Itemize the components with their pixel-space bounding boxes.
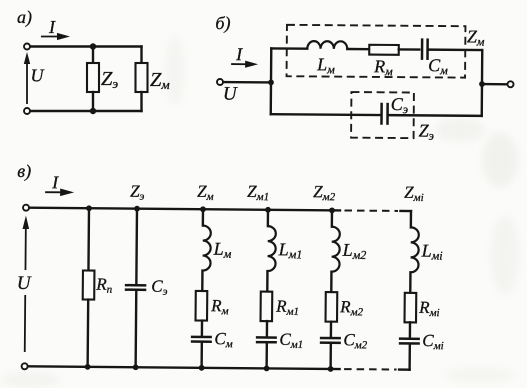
svg-text:Cм1: Cм1	[279, 330, 303, 351]
node dots top rail (part v)	[86, 205, 335, 213]
inductor L_мi (part v)	[410, 227, 418, 272]
svg-text:U: U	[31, 66, 45, 86]
svg-text:Cм: Cм	[428, 55, 448, 77]
resistor R_м (part b)	[369, 45, 399, 55]
resistor R_мi (part v)	[405, 293, 417, 323]
branch Z_м1 : wire top (part v)	[267, 210, 270, 226]
svg-text:в): в)	[17, 161, 31, 182]
node junction bottom (part a)	[90, 108, 96, 114]
wire input (part b)	[223, 81, 270, 84]
capacitor C_э branch (part v)	[124, 209, 147, 368]
svg-text:Zм2: Zм2	[313, 182, 336, 203]
inductor L_м (part v)	[202, 226, 210, 271]
current arrow I (part a)	[41, 33, 70, 40]
terminal input (part b)	[217, 79, 223, 85]
resistor R_м2 (part v)	[326, 292, 338, 322]
top rail solid (part v)	[30, 208, 340, 211]
branch Z_м : wire top (part v)	[202, 209, 205, 225]
inductor L_м (part b)	[307, 41, 347, 49]
svg-text:U: U	[223, 84, 238, 105]
wire capacitor-rail b2 (part v)	[265, 343, 268, 368]
wire capacitor-rail b3 (part v)	[329, 344, 332, 369]
svg-text:Lм2: Lм2	[342, 240, 367, 262]
svg-text:Cм2: Cм2	[343, 330, 368, 351]
wire coil-resistor b2 (part v)	[266, 271, 269, 291]
capacitor C_м2 (part v)	[320, 338, 341, 343]
voltage arrow U (part a)	[24, 52, 30, 104]
wire coil-resistor b1 (part v)	[201, 271, 204, 291]
wire resistor-capacitor b4 (part v)	[409, 322, 412, 337]
wire upper branch right (part b)	[428, 48, 482, 51]
voltage arrow U lower shaft (part v)	[24, 295, 26, 352]
svg-text:Lмi: Lмi	[421, 240, 443, 262]
wire capacitor-rail b4 (part v)	[408, 345, 411, 370]
wire left vertical (part b)	[270, 48, 273, 114]
svg-text:Zэ: Zэ	[130, 182, 145, 203]
node dots bottom rail (part v)	[85, 364, 334, 372]
node input junction (part b)	[268, 79, 274, 85]
svg-text:I: I	[48, 17, 56, 37]
wire lower branch right (part b)	[389, 114, 482, 117]
svg-text:Zэ: Zэ	[419, 121, 434, 143]
bottom rail dashed (part v)	[344, 368, 396, 370]
dashed box Z_э (part b)	[351, 92, 414, 138]
capacitor C_м1 (part v)	[256, 337, 277, 342]
svg-text:Rм2: Rм2	[339, 297, 364, 318]
svg-text:а): а)	[17, 7, 32, 28]
inductor L_м1 (part v)	[267, 226, 275, 271]
voltage arrow U upper shaft (part v)	[22, 215, 29, 270]
resistor R_п branch (part v)	[82, 208, 95, 367]
wire upper branch left (part b)	[271, 47, 307, 50]
wire right vertical (part b)	[481, 50, 484, 116]
wire bottom (part a)	[31, 110, 142, 112]
wire resistor-capacitor b2 (part v)	[266, 321, 269, 336]
svg-text:U: U	[17, 273, 32, 294]
bottom rail solid (part v)	[28, 366, 339, 369]
branch Z_м2 : wire top (part v)	[331, 210, 334, 226]
svg-text:Rп: Rп	[95, 275, 113, 296]
svg-text:Rм: Rм	[373, 56, 393, 78]
impedance Z_э branch (part a)	[87, 47, 99, 112]
svg-text:Lм1: Lм1	[278, 239, 303, 261]
svg-text:Lм: Lм	[213, 239, 232, 261]
svg-text:Rм: Rм	[210, 296, 229, 317]
current arrow I (part v)	[45, 188, 74, 196]
resistor R_м (part v)	[196, 291, 208, 321]
wire coil-resistor b4 (part v)	[409, 272, 412, 292]
branch Z_мi : wire top (part v)	[410, 211, 413, 227]
svg-text:Cм: Cм	[214, 329, 233, 350]
node output junction (part b)	[479, 81, 485, 87]
capacitor C_э (part b)	[381, 103, 387, 125]
svg-text:Zм: Zм	[467, 26, 485, 48]
dashed box Z_м (part b)	[287, 25, 466, 78]
terminal top-left (part v)	[23, 205, 29, 211]
svg-text:Zм1: Zм1	[247, 182, 269, 203]
wire coil-resistor b3 (part v)	[330, 272, 333, 292]
svg-text:б): б)	[215, 13, 230, 34]
wire resistor-capacitor b3 (part v)	[330, 322, 333, 337]
impedance Z_м branch (part a)	[136, 47, 148, 112]
svg-text:Cэ: Cэ	[391, 94, 408, 116]
capacitor C_мi (part v)	[399, 339, 420, 344]
terminal bottom-left (part v)	[22, 363, 28, 369]
node junction top (part a)	[90, 43, 96, 49]
wire top (part a)	[31, 45, 142, 47]
wire coil-resistor (part b)	[347, 48, 369, 51]
capacitor C_м (part b)	[422, 38, 428, 60]
wire resistor-capacitor b1 (part v)	[201, 321, 204, 336]
svg-text:Cмi: Cмi	[422, 331, 444, 352]
svg-text:I: I	[51, 172, 59, 192]
svg-text:I: I	[235, 44, 243, 64]
top rail dashed (part v)	[344, 209, 397, 211]
bottom rail corner piece (part v)	[399, 368, 409, 370]
terminal top-left (part a)	[24, 44, 30, 50]
wire capacitor-rail b1 (part v)	[200, 343, 203, 368]
resistor R_м1 (part v)	[261, 292, 273, 322]
svg-text:Cэ: Cэ	[151, 277, 168, 298]
svg-text:Rм1: Rм1	[275, 297, 299, 318]
wire lower branch left (part b)	[271, 113, 381, 116]
svg-text:Zмi: Zмi	[404, 183, 424, 204]
terminal bottom-left (part a)	[24, 108, 30, 114]
wire resistor-capacitor (part b)	[399, 48, 419, 51]
inductor L_м2 (part v)	[331, 227, 339, 272]
current arrow I (part b)	[231, 60, 258, 67]
capacitor C_м (part v)	[191, 337, 212, 342]
svg-text:Rмi: Rмi	[418, 298, 440, 319]
svg-text:Zм: Zм	[197, 182, 214, 203]
terminal output (part b)	[507, 81, 513, 87]
svg-text:Lм: Lм	[316, 54, 335, 76]
svg-text:Zэ: Zэ	[101, 68, 118, 91]
top rail corner piece (part v)	[400, 210, 410, 212]
wire output (part b)	[484, 83, 507, 86]
